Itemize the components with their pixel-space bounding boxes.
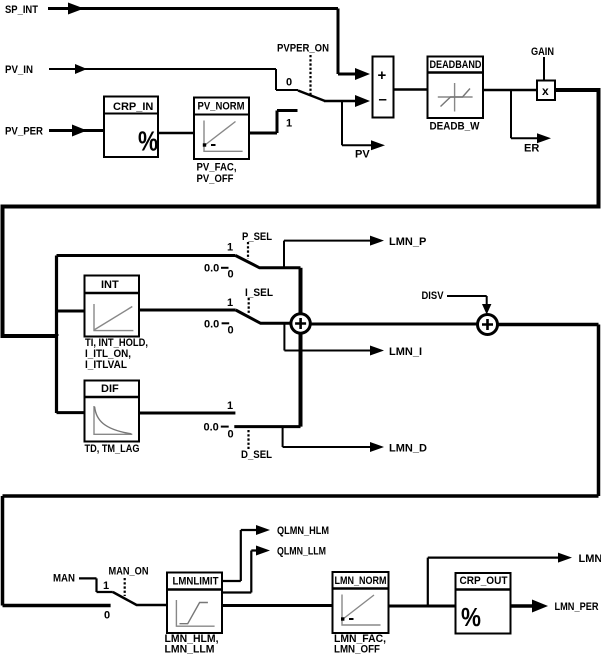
wire INT input bbox=[57, 310, 85, 313]
block LMN_NORM bbox=[333, 572, 389, 633]
selector line MAN_ON (dotted) bbox=[124, 578, 126, 596]
wire LMN_PER output bbox=[511, 600, 549, 613]
wire multiplier to right edge, down, ER return line to left, down to trunk bbox=[1, 88, 601, 336]
wire ER output tap bbox=[511, 90, 551, 143]
svg-text:DEADB_W: DEADB_W bbox=[430, 121, 481, 133]
svg-text:PVPER_ON: PVPER_ON bbox=[277, 43, 329, 55]
wire GAIN to multiplier bbox=[543, 57, 545, 81]
svg-text:1: 1 bbox=[286, 118, 292, 130]
svg-text:QLMN_HLM: QLMN_HLM bbox=[277, 525, 329, 537]
block INT bbox=[85, 276, 140, 337]
switch arm MAN_ON + wire to LMNLIMIT bbox=[113, 592, 167, 605]
pin 0 stub (D_SEL) bbox=[221, 426, 229, 428]
svg-text:PV: PV bbox=[355, 149, 370, 161]
multiplier block x bbox=[537, 81, 555, 101]
svg-text:PV_FAC,: PV_FAC, bbox=[197, 162, 237, 174]
svg-text:D_SEL: D_SEL bbox=[241, 449, 272, 461]
pin 0 stub (I_SEL) bbox=[222, 322, 230, 324]
svg-text:LMN_P: LMN_P bbox=[389, 236, 426, 248]
wire QLMN_HLM tap bbox=[222, 525, 270, 581]
wire summer1 to summer2 bbox=[310, 323, 478, 326]
svg-text:LMN_LLM: LMN_LLM bbox=[165, 644, 215, 656]
svg-text:–: – bbox=[379, 91, 387, 108]
wire LMN_D tap bbox=[283, 427, 384, 452]
wire summer2 to right edge down to bottom section bbox=[3, 325, 599, 606]
svg-text:MAN_ON: MAN_ON bbox=[109, 566, 149, 578]
selector line P_SEL (dotted) bbox=[247, 242, 249, 259]
svg-text:0.0: 0.0 bbox=[204, 422, 219, 434]
wire INT output bbox=[139, 309, 236, 312]
svg-text:0: 0 bbox=[286, 77, 292, 89]
summer circle 2 bbox=[478, 315, 498, 335]
svg-text:1: 1 bbox=[227, 400, 233, 412]
selector line I_SEL (dotted) bbox=[248, 298, 250, 314]
wire summing block to DEADBAND bbox=[394, 88, 428, 91]
svg-text:+: + bbox=[378, 67, 387, 84]
svg-text:0.0: 0.0 bbox=[204, 263, 219, 275]
svg-text:SP_INT: SP_INT bbox=[5, 4, 38, 16]
wire LMN tap bbox=[428, 553, 572, 606]
svg-text:ER: ER bbox=[524, 143, 539, 155]
wire P branch input bbox=[57, 254, 236, 257]
svg-text:0: 0 bbox=[228, 429, 234, 441]
svg-text:PV_IN: PV_IN bbox=[5, 64, 33, 76]
selector line D_SEL (dotted) bbox=[247, 430, 249, 449]
wire CRP_IN to PV_NORM bbox=[158, 132, 194, 135]
svg-text:LMN_PER: LMN_PER bbox=[555, 601, 599, 613]
wire P branch down to summer bbox=[299, 268, 303, 314]
svg-text:LMNLIMIT: LMNLIMIT bbox=[173, 576, 219, 588]
svg-text:GAIN: GAIN bbox=[531, 46, 554, 58]
svg-text:INT: INT bbox=[101, 279, 119, 291]
wire PV_NORM to switch contact 1 bbox=[249, 111, 298, 134]
svg-text:0: 0 bbox=[228, 325, 234, 337]
wire MAN to contact 1 bbox=[79, 578, 113, 592]
svg-text:DEADBAND: DEADBAND bbox=[430, 59, 482, 71]
wire LMN_NORM to CRP_OUT bbox=[389, 605, 456, 608]
wire switch to summing input - bbox=[324, 95, 370, 107]
svg-text:0: 0 bbox=[104, 610, 110, 622]
svg-text:LMN_OFF: LMN_OFF bbox=[334, 644, 380, 656]
svg-text:%: % bbox=[138, 126, 158, 157]
svg-text:0: 0 bbox=[228, 269, 234, 281]
switch arm P_SEL + wire to node bbox=[236, 256, 301, 268]
svg-text:DIF: DIF bbox=[101, 383, 119, 395]
block LMNLIMIT bbox=[167, 573, 222, 634]
block CRP_OUT bbox=[456, 573, 511, 634]
svg-text:MAN: MAN bbox=[53, 573, 75, 585]
svg-text:I_SEL: I_SEL bbox=[245, 287, 273, 299]
svg-text:0.0: 0.0 bbox=[204, 319, 219, 331]
summing block +/- bbox=[373, 57, 394, 118]
svg-text:PV_OFF: PV_OFF bbox=[197, 173, 234, 185]
wire DISV into summer 2 bbox=[447, 296, 491, 315]
wire summer1 down to D branch bbox=[299, 333, 303, 427]
wire trunk vertical bbox=[55, 256, 58, 414]
wire DEADBAND to GAIN multiplier bbox=[483, 89, 537, 92]
svg-text:LMN_NORM: LMN_NORM bbox=[335, 575, 387, 587]
svg-text:DISV: DISV bbox=[422, 290, 445, 302]
block CRP_IN bbox=[104, 97, 158, 158]
svg-text:PV_NORM: PV_NORM bbox=[198, 101, 245, 113]
summer circle 1 bbox=[291, 314, 310, 333]
wire DIF output (contact 1) bbox=[139, 412, 235, 415]
wire LMN_I tap bbox=[284, 323, 384, 355]
svg-text:LMN: LMN bbox=[579, 553, 601, 565]
svg-text:CRP_IN: CRP_IN bbox=[113, 101, 153, 113]
wire QLMN_LLM tap bbox=[222, 546, 270, 593]
wire PV_IN to switch contact 0 bbox=[49, 64, 298, 90]
svg-text:TD, TM_LAG: TD, TM_LAG bbox=[85, 443, 140, 455]
wire PV output tap bbox=[342, 101, 385, 150]
svg-text:P_SEL: P_SEL bbox=[242, 231, 272, 243]
switch arm I_SEL + wire to summer bbox=[236, 310, 292, 323]
svg-text:1: 1 bbox=[227, 297, 233, 309]
selector line PVPER_ON (dotted) bbox=[309, 55, 311, 95]
pin 0 stub (P_SEL) bbox=[221, 267, 229, 269]
wire LMNLIMIT to LMN_NORM bbox=[222, 604, 333, 607]
svg-text:LMN_I: LMN_I bbox=[389, 346, 422, 358]
svg-text:1: 1 bbox=[103, 580, 109, 592]
switch arm D_SEL (0 position) to node bbox=[234, 425, 300, 428]
switch arm PVPER_ON bbox=[298, 91, 325, 102]
block DIF bbox=[85, 381, 140, 442]
block PV_NORM bbox=[194, 98, 249, 160]
svg-text:I_ITLVAL: I_ITLVAL bbox=[85, 359, 127, 371]
wire LMN_P tap bbox=[284, 236, 384, 268]
wire PV_PER to CRP_IN bbox=[49, 125, 104, 137]
svg-text:%: % bbox=[461, 602, 481, 632]
svg-text:PV_PER: PV_PER bbox=[5, 126, 43, 138]
svg-text:QLMN_LLM: QLMN_LLM bbox=[277, 546, 326, 558]
svg-text:x: x bbox=[542, 84, 549, 98]
svg-text:1: 1 bbox=[227, 242, 233, 254]
wire SP_INT to summing input + bbox=[48, 3, 370, 81]
svg-text:CRP_OUT: CRP_OUT bbox=[460, 575, 508, 587]
wire DIF input bbox=[57, 411, 85, 414]
svg-text:LMN_D: LMN_D bbox=[389, 443, 427, 455]
block DEADBAND bbox=[428, 57, 484, 119]
